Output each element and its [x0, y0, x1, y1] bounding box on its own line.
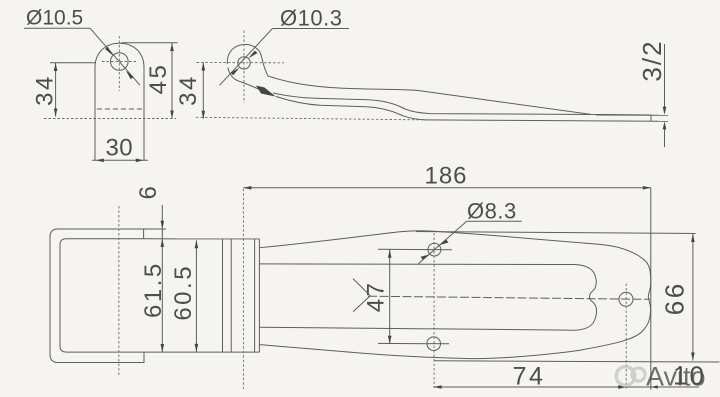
- svg-text:61.5: 61.5: [140, 261, 167, 318]
- svg-text:34: 34: [175, 74, 202, 106]
- svg-text:66: 66: [660, 281, 690, 315]
- svg-text:45: 45: [145, 63, 172, 95]
- svg-text:186: 186: [424, 163, 467, 190]
- svg-text:3/2: 3/2: [637, 39, 667, 81]
- svg-text:Ø10.3: Ø10.3: [280, 6, 342, 31]
- svg-text:60.5: 60.5: [170, 264, 197, 321]
- svg-text:Avito: Avito: [646, 362, 706, 392]
- svg-text:34: 34: [32, 74, 59, 106]
- svg-text:47: 47: [363, 281, 390, 313]
- svg-text:Ø10.5: Ø10.5: [26, 7, 83, 30]
- svg-text:30: 30: [105, 135, 133, 162]
- svg-text:74: 74: [513, 363, 546, 391]
- svg-text:Ø8.3: Ø8.3: [467, 199, 517, 224]
- svg-text:6: 6: [135, 184, 162, 200]
